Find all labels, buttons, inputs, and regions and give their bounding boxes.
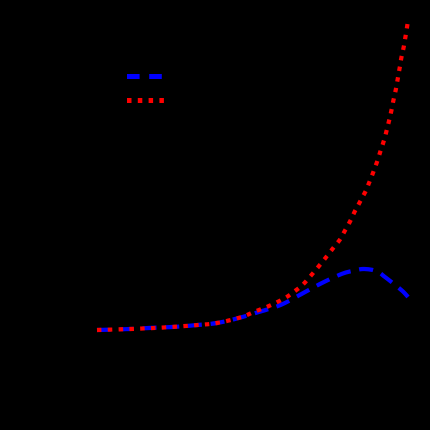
- blue dashed curve: [97, 269, 408, 330]
- legend sample: red dotted line: [127, 98, 164, 103]
- legend sample: blue dashed line: [127, 74, 163, 79]
- red dotted curve: [97, 24, 408, 330]
